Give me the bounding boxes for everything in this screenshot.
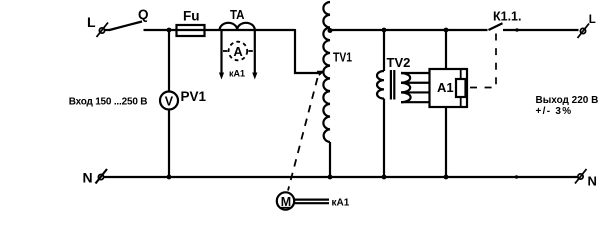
wire TV2 branch top (383, 30, 385, 71)
junction dot TV2 bottom (382, 175, 387, 180)
terminal L input (circle with slash) (97, 23, 109, 38)
svg-text:TV1: TV1 (333, 50, 352, 65)
junction dot TV1 tap node (328, 28, 333, 33)
resistor inside A1 (456, 69, 466, 107)
motor M (277, 192, 294, 209)
wire A1 bottom lead (445, 107, 447, 177)
terminal L output (circle with slash) (578, 24, 590, 39)
voltmeter branch wire top (168, 30, 170, 92)
switch Q blade (110, 22, 143, 31)
wire TV2 branch bottom (383, 99, 385, 177)
svg-text:A1: A1 (437, 80, 454, 95)
svg-text:N: N (588, 174, 597, 189)
svg-text:TV2: TV2 (387, 55, 411, 70)
wire TA down-step to variac wiper (295, 29, 319, 73)
wiper arrowhead at TV1 (317, 71, 325, 76)
svg-text:кА1: кА1 (332, 198, 350, 209)
dashed mechanical link wiper to motor (288, 78, 318, 191)
junction dot TV2 top node (382, 28, 387, 33)
TV2 core lines (391, 70, 394, 100)
svg-text:К1.1.: К1.1. (493, 10, 521, 24)
dash tick right of ammeter (248, 50, 252, 52)
fuse Fu (177, 25, 205, 36)
control unit A1 box (430, 69, 468, 107)
voltmeter PV1 (160, 92, 178, 110)
TA right arrow (to ammeter) (252, 30, 257, 80)
svg-text:Q: Q (138, 7, 149, 22)
TA left arrow (to ammeter) (219, 30, 224, 80)
terminal N left (circle with slash) (96, 169, 108, 184)
svg-text:Fu: Fu (183, 9, 200, 24)
TV2 secondary leads to A1 (401, 73, 430, 102)
junction dot A1 top node (444, 28, 449, 33)
junction dot TV1 bottom on N (328, 175, 333, 180)
transformer TV2 primary winding (377, 71, 384, 99)
voltmeter branch wire bottom (168, 110, 170, 178)
svg-text:PV1: PV1 (181, 89, 207, 104)
contact dot on N line right (515, 175, 518, 178)
wire TV1 bottom to N (329, 142, 331, 177)
wire output line from TV1 tap to K1.1 (330, 29, 488, 31)
dash tick left of ammeter (223, 50, 227, 52)
svg-text:Вход 150 ...250 В: Вход 150 ...250 В (69, 97, 148, 108)
svg-text:L: L (87, 14, 96, 30)
junction dot node PV1 tap (167, 28, 172, 33)
relay contact K1.1 blade (489, 23, 503, 30)
junction dot A1 bottom (444, 175, 449, 180)
N bus wire (104, 176, 579, 178)
wire K1.1 to output terminal L (503, 29, 579, 31)
ammeter A (dashed circle) (229, 42, 248, 61)
transformer TV2 secondary winding (401, 73, 411, 102)
current transformer TA (two humps) (220, 23, 255, 30)
svg-text:V: V (165, 94, 174, 108)
svg-text:+/- 3%: +/- 3% (536, 106, 573, 117)
terminal N right (circle with slash) (575, 169, 587, 184)
svg-text:M: M (281, 195, 291, 209)
svg-text:N: N (83, 170, 93, 186)
svg-text:TA: TA (230, 7, 245, 22)
junction dot PV1 bottom (167, 175, 172, 180)
motor double leads (295, 200, 330, 204)
wire L-terminal to switch (105, 29, 111, 31)
wire A1 top lead (445, 30, 447, 69)
svg-text:L: L (589, 14, 596, 26)
contact dot on output line (515, 28, 518, 31)
svg-text:Выход 220 В: Выход 220 В (536, 95, 599, 106)
svg-text:кА1: кА1 (229, 69, 245, 79)
wire switch to fuse to TA (passes through fuse) (144, 29, 296, 31)
dashed link K1.1 to A1 (468, 34, 497, 88)
svg-text:A: A (233, 44, 243, 59)
autotransformer TV1 coil (323, 2, 330, 142)
